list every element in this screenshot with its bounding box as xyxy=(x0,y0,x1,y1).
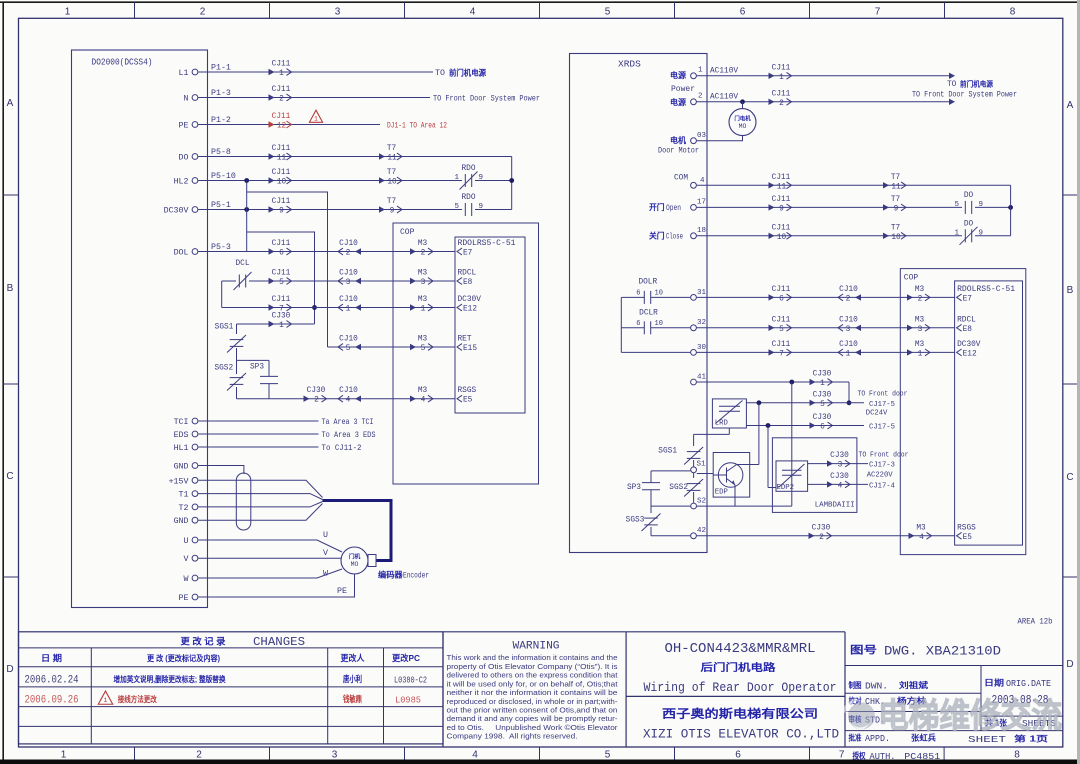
bottom ruler ticks xyxy=(135,747,810,760)
wire PE row bottom xyxy=(198,575,354,598)
svg-text:U: U xyxy=(184,537,189,546)
svg-text:9: 9 xyxy=(779,205,784,213)
wire vertical HL2/DC30V to DOL xyxy=(246,181,248,252)
svg-text:更改PC: 更改PC xyxy=(392,653,420,663)
switch SGS2 xyxy=(236,360,238,374)
svg-text:TO Front Door System Power: TO Front Door System Power xyxy=(912,92,1017,100)
svg-text:4: 4 xyxy=(919,534,924,542)
wire S1 node xyxy=(651,470,690,472)
svg-text:DO: DO xyxy=(964,192,974,200)
svg-text:RSGS: RSGS xyxy=(458,387,477,395)
svg-text:E8: E8 xyxy=(463,279,473,287)
connector CJ11-7 xyxy=(269,304,275,310)
svg-text:2: 2 xyxy=(196,750,202,761)
wire GND2 row xyxy=(198,504,322,521)
svg-text:DC30V: DC30V xyxy=(458,296,482,304)
svg-text:CJ30: CJ30 xyxy=(272,313,291,321)
wire bracket DOLR/DCLR xyxy=(620,297,622,352)
svg-text:CJ11: CJ11 xyxy=(772,90,791,98)
junction dot CJ30-5 xyxy=(847,400,852,405)
svg-text:8: 8 xyxy=(1014,750,1020,761)
wire EDP2 feed xyxy=(767,426,769,488)
svg-text:L1: L1 xyxy=(179,69,189,78)
svg-text:门电机: 门电机 xyxy=(734,115,751,123)
svg-text:SGS1: SGS1 xyxy=(658,448,677,456)
svg-text:2: 2 xyxy=(314,397,319,405)
border frame outer left line xyxy=(2,2,4,760)
connector CJ11-11 right xyxy=(769,182,775,188)
svg-text:M3: M3 xyxy=(418,240,428,248)
svg-text:SP3: SP3 xyxy=(627,484,641,492)
wire CJ10-5 row xyxy=(328,346,456,348)
svg-text:11: 11 xyxy=(777,183,787,191)
transistor EDP xyxy=(718,463,743,488)
svg-text:V: V xyxy=(323,549,328,558)
connector CJ11-2 xyxy=(269,94,275,100)
watermark logo circle xyxy=(843,699,875,729)
connector CJ11-10 xyxy=(269,177,275,183)
svg-text:CHANGES: CHANGES xyxy=(253,636,305,649)
svg-text:U: U xyxy=(323,531,328,540)
block COP outline (left) xyxy=(393,223,539,484)
svg-text:M3: M3 xyxy=(915,316,925,324)
svg-text:7: 7 xyxy=(779,350,784,358)
svg-text:T7: T7 xyxy=(891,174,901,182)
svg-text:AUTH.: AUTH. xyxy=(870,752,896,762)
svg-text:CJ17-4: CJ17-4 xyxy=(869,482,895,490)
connector M3-2 xyxy=(410,248,416,254)
switch SGS2 right xyxy=(693,473,695,478)
svg-text:6: 6 xyxy=(735,750,741,761)
connector CJ10-2 xyxy=(355,248,361,254)
svg-text:8: 8 xyxy=(1010,7,1016,18)
drawing number panel lines xyxy=(845,666,1063,731)
top ruler labels 1-8 xyxy=(65,7,1016,18)
svg-text:AC220V: AC220V xyxy=(867,472,894,480)
connector CJ10-1 right xyxy=(855,349,861,355)
svg-text:9: 9 xyxy=(279,208,284,216)
svg-text:A: A xyxy=(1067,100,1074,111)
svg-text:31: 31 xyxy=(697,289,707,297)
svg-text:P5-8: P5-8 xyxy=(211,148,231,157)
svg-text:更改人: 更改人 xyxy=(341,653,365,663)
svg-text:P1-3: P1-3 xyxy=(211,89,231,98)
warning panel outline xyxy=(443,632,626,747)
svg-text:COP: COP xyxy=(904,274,919,283)
block DO2000(DCSS4) outline xyxy=(72,50,208,608)
svg-text:Wiring of Rear Door Operator: Wiring of Rear Door Operator xyxy=(644,680,837,695)
wire DCL loop vertical xyxy=(221,281,223,308)
wire row 41 xyxy=(697,381,849,383)
connector CJ11-1 xyxy=(269,69,275,75)
wire L1 row xyxy=(198,71,433,73)
connector M3-5 xyxy=(410,344,416,350)
connector T7-11 right xyxy=(883,182,889,188)
connector CJ11-7 right xyxy=(769,349,775,355)
svg-text:EDP2: EDP2 xyxy=(777,484,795,492)
svg-text:2006.09.26: 2006.09.26 xyxy=(25,694,79,706)
svg-text:HL2: HL2 xyxy=(174,178,189,187)
svg-text:M3: M3 xyxy=(418,387,428,395)
svg-text:M3: M3 xyxy=(418,336,428,344)
capacitor SP3 right branch xyxy=(650,471,652,483)
switch SGS1 right xyxy=(687,451,701,453)
port E8 RDCL xyxy=(457,278,462,285)
wire U row xyxy=(198,540,342,552)
svg-text:Close: Close xyxy=(666,234,683,242)
svg-text:CJ10: CJ10 xyxy=(339,336,358,344)
connector M3-4 xyxy=(410,396,416,402)
svg-text:CJ10: CJ10 xyxy=(839,341,858,349)
warning triangle 1 xyxy=(309,110,322,122)
svg-text:M3: M3 xyxy=(418,270,428,278)
svg-text:P1-1: P1-1 xyxy=(211,64,231,73)
svg-text:1: 1 xyxy=(421,306,426,314)
svg-text:To CJ11-2: To CJ11-2 xyxy=(322,444,362,453)
block XRDS outline xyxy=(570,54,708,553)
relay contact DO (NC) xyxy=(964,229,966,242)
svg-text:6: 6 xyxy=(636,320,640,328)
svg-text:SGS3: SGS3 xyxy=(626,517,645,525)
svg-text:M3: M3 xyxy=(418,296,428,304)
connector CJ30-1 right xyxy=(810,379,816,385)
svg-text:out the prior written consent: out the prior written consent of Otis,an… xyxy=(447,706,618,715)
svg-text:42: 42 xyxy=(697,527,706,535)
svg-text:P5-10: P5-10 xyxy=(211,172,236,181)
terminal S2 xyxy=(691,503,697,509)
port E12 DC30V xyxy=(457,304,462,311)
block LAMBDAIII outline xyxy=(772,438,857,513)
wire CJ30-5 row xyxy=(746,402,864,404)
svg-text:3: 3 xyxy=(346,279,351,287)
svg-text:9: 9 xyxy=(479,203,484,211)
svg-text:LAMBDAIII: LAMBDAIII xyxy=(815,502,855,510)
connector CJ30-5 right xyxy=(810,400,816,406)
svg-text:DOL: DOL xyxy=(174,249,189,258)
connector T7-9 xyxy=(379,206,385,212)
svg-text:DO: DO xyxy=(179,154,189,163)
svg-text:Door Motor: Door Motor xyxy=(658,147,699,156)
terminal 41 xyxy=(691,379,697,385)
svg-text:CJ10: CJ10 xyxy=(339,387,358,395)
svg-text:CJ10: CJ10 xyxy=(339,240,358,248)
svg-text:10: 10 xyxy=(655,290,663,298)
svg-text:西子奥的斯电梯有限公司: 西子奥的斯电梯有限公司 xyxy=(662,707,818,721)
svg-text:电梯维修交流: 电梯维修交流 xyxy=(878,697,1062,736)
connector T7-9 right xyxy=(883,204,889,210)
svg-text:6: 6 xyxy=(820,424,825,432)
svg-text:T2: T2 xyxy=(179,504,189,513)
svg-text:钱敏鼎: 钱敏鼎 xyxy=(343,694,362,704)
port E7 right xyxy=(957,294,962,301)
svg-text:RDOLRS5-C-51: RDOLRS5-C-51 xyxy=(957,286,1015,294)
port E15 RET xyxy=(457,344,462,351)
thick wire to encoder xyxy=(323,501,392,561)
svg-text:SP3: SP3 xyxy=(250,364,264,372)
svg-text:CJ11: CJ11 xyxy=(272,113,291,121)
wire TCI row xyxy=(198,420,318,422)
relay contact RDO (NC) on HL2 row xyxy=(464,174,466,187)
junction dot RDO right xyxy=(509,178,514,183)
svg-text:关门: 关门 xyxy=(649,231,665,241)
svg-text:B: B xyxy=(1067,285,1074,296)
svg-text:DCLR: DCLR xyxy=(639,310,658,318)
svg-text:C: C xyxy=(1066,472,1073,483)
svg-text:日 期: 日 期 xyxy=(41,653,63,663)
svg-text:9: 9 xyxy=(894,205,899,213)
svg-text:T1: T1 xyxy=(179,491,189,500)
right margin labels A-D xyxy=(1066,100,1073,670)
contact DCL (NC) xyxy=(238,275,240,288)
svg-text:CJ11: CJ11 xyxy=(272,86,291,94)
junction dot HL2 xyxy=(244,178,249,183)
svg-text:9: 9 xyxy=(390,208,395,216)
wire DOL row xyxy=(198,251,455,253)
svg-text:V: V xyxy=(184,555,189,564)
svg-text:11: 11 xyxy=(387,155,397,163)
svg-text:CJ11: CJ11 xyxy=(272,270,291,278)
svg-text:D: D xyxy=(1066,659,1073,670)
svg-text:4: 4 xyxy=(346,397,351,405)
svg-text:RDOLRS5-C-51: RDOLRS5-C-51 xyxy=(458,240,516,248)
connector CJ11-6 xyxy=(269,248,275,254)
svg-text:RDCL: RDCL xyxy=(458,270,477,278)
svg-text:SGS1: SGS1 xyxy=(215,324,234,332)
wire HL2 row xyxy=(198,180,462,182)
svg-text:E8: E8 xyxy=(963,326,973,334)
svg-text:DWG. XBA21310D: DWG. XBA21310D xyxy=(884,644,1001,659)
svg-text:neither it nor the information: neither it nor the information it contai… xyxy=(447,688,618,697)
svg-text:9: 9 xyxy=(479,174,484,182)
svg-text:4: 4 xyxy=(421,397,426,405)
svg-text:DCL: DCL xyxy=(235,260,249,268)
svg-text:3: 3 xyxy=(918,326,923,334)
border frame right grey edge xyxy=(1077,0,1080,764)
wire row 31 to COP xyxy=(697,296,955,298)
wire W row xyxy=(198,569,342,578)
wire AC110V row 2 xyxy=(697,101,950,103)
svg-text:M3: M3 xyxy=(915,341,925,349)
svg-text:1: 1 xyxy=(104,697,108,704)
svg-text:CJ17-3: CJ17-3 xyxy=(869,462,895,470)
svg-text:10: 10 xyxy=(891,234,901,242)
connector M3-2 right xyxy=(907,294,913,300)
svg-text:5: 5 xyxy=(954,201,959,209)
svg-text:DJ1-1 TO Area 12: DJ1-1 TO Area 12 xyxy=(387,122,447,131)
wire row 30 xyxy=(621,351,690,353)
wire CJ11-7 row xyxy=(222,307,455,309)
terminal 32 xyxy=(691,325,697,331)
svg-text:18: 18 xyxy=(697,227,706,235)
svg-text:SHEET: SHEET xyxy=(968,735,1006,745)
svg-text:CJ11: CJ11 xyxy=(772,286,791,294)
switch SGS1 chain stub xyxy=(236,324,238,334)
block LRD outline xyxy=(712,399,746,428)
svg-text:PE: PE xyxy=(337,587,347,596)
wire row 42 to COP xyxy=(697,535,955,537)
svg-text:TO Front door: TO Front door xyxy=(859,452,909,460)
svg-text:1: 1 xyxy=(846,350,851,358)
svg-text:日期: 日期 xyxy=(984,678,1004,688)
svg-text:5: 5 xyxy=(605,7,611,18)
svg-text:S1: S1 xyxy=(697,461,707,469)
svg-text:SGS2: SGS2 xyxy=(669,484,688,492)
svg-text:T7: T7 xyxy=(387,145,397,153)
terminal 31 xyxy=(691,295,697,301)
svg-text:E12: E12 xyxy=(963,350,977,358)
svg-text:T7: T7 xyxy=(387,198,397,206)
svg-text:APPD.: APPD. xyxy=(865,734,890,744)
svg-text:电机: 电机 xyxy=(670,135,686,145)
top ruler ticks xyxy=(135,2,945,18)
svg-text:C: C xyxy=(6,471,13,482)
connector CJ11-2 right xyxy=(769,99,775,105)
cell AUTH PC4851 divider xyxy=(943,747,945,760)
svg-text:N: N xyxy=(184,95,189,104)
changes table outline xyxy=(19,632,444,744)
connector CJ11-9 xyxy=(269,206,275,212)
wire SGS3 to terminal 42 xyxy=(651,535,690,537)
left margin labels A-D xyxy=(6,98,13,675)
svg-text:+15V: +15V xyxy=(169,477,189,486)
connector CJ10-3 xyxy=(355,278,361,284)
svg-text:4: 4 xyxy=(700,177,705,185)
wire row 32 to COP xyxy=(697,327,955,329)
svg-text:CJ11: CJ11 xyxy=(772,196,791,204)
port E5 RSGS xyxy=(457,395,462,402)
svg-text:7: 7 xyxy=(839,750,845,761)
svg-text:delivered to others on the exp: delivered to others on the express condi… xyxy=(447,671,619,680)
terminal 42 xyxy=(691,533,697,539)
connector CJ30-3 right xyxy=(827,460,833,466)
svg-text:2: 2 xyxy=(698,93,703,101)
svg-text:CJ10: CJ10 xyxy=(839,316,858,324)
connector CJ10-2 right xyxy=(855,294,861,300)
bottom ruler labels 1-8 xyxy=(61,750,1021,761)
svg-text:接线方法更改: 接线方法更改 xyxy=(118,694,158,704)
svg-text:DO2000(DCSS4): DO2000(DCSS4) xyxy=(92,57,153,68)
svg-text:1: 1 xyxy=(65,7,71,18)
svg-text:MO: MO xyxy=(739,123,747,130)
switch SGS3 xyxy=(644,517,658,519)
svg-text:3: 3 xyxy=(421,279,426,287)
connector CJ30-4 right xyxy=(827,481,833,487)
svg-text:CJ30: CJ30 xyxy=(813,414,832,422)
svg-text:CJ10: CJ10 xyxy=(339,270,358,278)
svg-text:TCI: TCI xyxy=(174,418,189,427)
wire EDP emitter down xyxy=(734,485,736,506)
terminal S1 xyxy=(691,467,697,473)
svg-text:S2: S2 xyxy=(697,497,706,505)
connector M3-3 right xyxy=(907,325,913,331)
svg-text:TO: TO xyxy=(435,69,445,78)
wire vertical DO right side xyxy=(1010,185,1012,236)
svg-text:CJ17-5: CJ17-5 xyxy=(869,424,895,432)
connector M3-1 right xyxy=(907,349,913,355)
wire branch HL2 to CJ10-5 net xyxy=(247,192,328,347)
svg-text:demand it and any copies will: demand it and any copies will be promptl… xyxy=(447,714,618,723)
svg-text:电源: 电源 xyxy=(670,70,686,80)
svg-text:DC30V: DC30V xyxy=(164,207,189,216)
svg-text:A: A xyxy=(7,98,14,109)
svg-text:1: 1 xyxy=(314,115,318,122)
svg-text:T7: T7 xyxy=(891,224,901,232)
connector CJ10-5 xyxy=(355,344,361,350)
svg-text:CJ30: CJ30 xyxy=(830,452,849,460)
svg-text:CJ30: CJ30 xyxy=(813,371,832,379)
connector M3-1 xyxy=(410,304,416,310)
connector M3-3 xyxy=(410,278,416,284)
svg-text:E12: E12 xyxy=(463,306,477,314)
connector CJ11-1 right xyxy=(769,73,775,79)
svg-text:This work and the information: This work and the information it contain… xyxy=(447,653,618,662)
symbol EDP2 sensor xyxy=(782,469,802,471)
svg-text:9: 9 xyxy=(979,229,984,237)
svg-text:后门门机电路: 后门门机电路 xyxy=(701,661,777,674)
svg-text:T7: T7 xyxy=(891,196,901,204)
svg-text:L0380-C2: L0380-C2 xyxy=(394,675,427,686)
svg-text:32: 32 xyxy=(697,319,706,327)
door motor circle xyxy=(742,102,744,109)
connector CJ10-1 xyxy=(355,304,361,310)
svg-text:刘祖斌: 刘祖斌 xyxy=(899,680,928,690)
svg-text:前门机电源: 前门机电源 xyxy=(960,79,993,89)
svg-text:10: 10 xyxy=(655,320,663,328)
svg-text:3: 3 xyxy=(335,7,341,18)
connector CJ30-6 right xyxy=(810,422,816,428)
svg-text:5: 5 xyxy=(454,203,459,211)
svg-text:To Area 3 EDS: To Area 3 EDS xyxy=(322,431,376,440)
svg-text:CJ11: CJ11 xyxy=(772,341,791,349)
relay contact DO (NO) xyxy=(964,201,966,214)
svg-text:CJ11: CJ11 xyxy=(272,61,291,69)
svg-text:E7: E7 xyxy=(963,295,973,303)
port E7 RDOLRS5-C-51 xyxy=(457,248,462,255)
connector T7-11 xyxy=(379,153,385,159)
wire AC110V row 1 xyxy=(697,75,950,77)
svg-text:CJ10: CJ10 xyxy=(839,286,858,294)
wire 41 corner down xyxy=(848,382,850,403)
wire DO row xyxy=(198,156,512,158)
wire Open row xyxy=(697,206,962,208)
svg-text:1: 1 xyxy=(454,174,459,182)
relay contact RDO (NO) on DC30V row xyxy=(464,203,466,216)
svg-text:RDCL: RDCL xyxy=(957,316,976,324)
svg-text:更 改 记 录: 更 改 记 录 xyxy=(181,635,226,646)
svg-text:制图: 制图 xyxy=(849,680,862,690)
wire T2 row xyxy=(198,502,322,507)
connector T7-10 right xyxy=(883,233,889,239)
svg-text:1: 1 xyxy=(279,70,284,78)
wire motor terminal 03 xyxy=(697,136,743,141)
connector CJ10-4 xyxy=(355,396,361,402)
svg-text:CJ11: CJ11 xyxy=(272,198,291,206)
junction dot LRD out xyxy=(757,400,762,405)
svg-text:4: 4 xyxy=(470,7,476,18)
svg-text:DOLR: DOLR xyxy=(638,279,657,287)
svg-text:WARNING: WARNING xyxy=(513,641,560,653)
svg-text:4: 4 xyxy=(472,750,478,761)
connector CJ30-2 right xyxy=(809,533,815,539)
wire Close row xyxy=(697,235,962,237)
svg-text:30: 30 xyxy=(697,344,707,352)
svg-text:M3: M3 xyxy=(915,286,925,294)
svg-text:5: 5 xyxy=(421,345,426,353)
connector CJ11-10 right xyxy=(769,233,775,239)
svg-text:AC110V: AC110V xyxy=(710,68,738,76)
svg-text:it will be used only for, or o: it will be used only for, or on behalf o… xyxy=(447,679,619,688)
wire CJ30-1 row from SGS1 xyxy=(237,323,315,325)
